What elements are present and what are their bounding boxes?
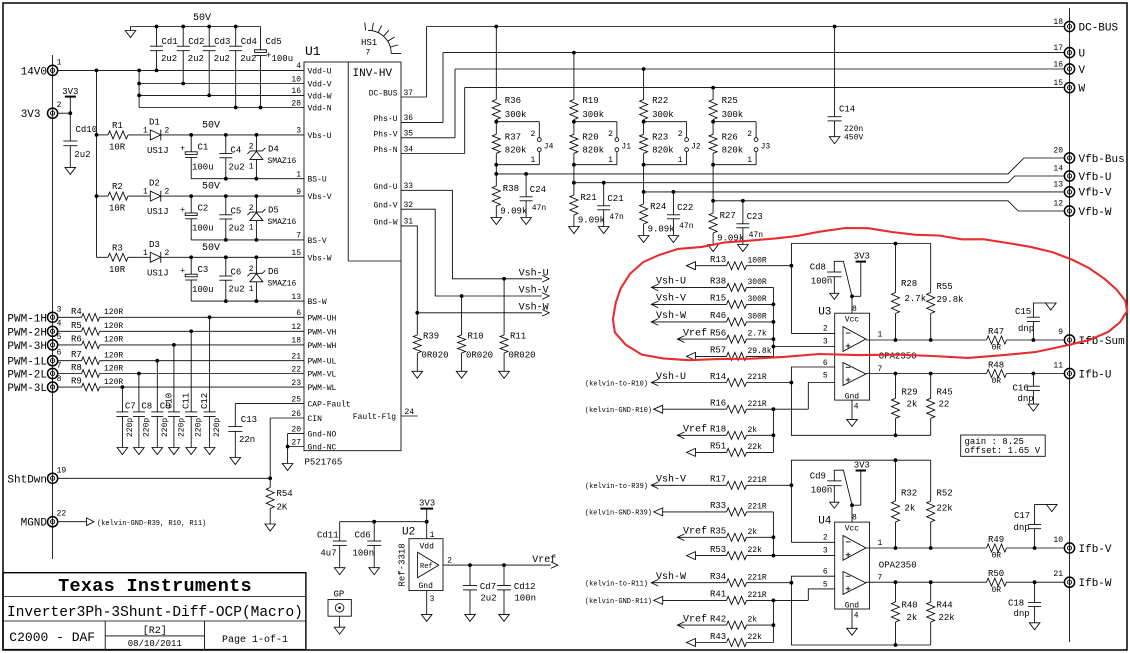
svg-text:22k: 22k: [748, 443, 763, 452]
svg-text:2: 2: [57, 101, 62, 110]
svg-text:US1J: US1J: [147, 268, 169, 278]
resistor R34 221R input: [585, 571, 791, 589]
wire Vfb-Bus net: [496, 158, 1064, 174]
resistor R2 10R: [97, 182, 151, 214]
svg-text:R22: R22: [652, 96, 668, 106]
svg-text:R28: R28: [901, 279, 917, 289]
resistor R4 120R: [58, 307, 305, 321]
svg-text:18: 18: [291, 337, 301, 346]
svg-text:PWM-3H: PWM-3H: [7, 341, 47, 353]
ground for GP: [334, 627, 345, 634]
svg-text:PWM-3L: PWM-3L: [7, 383, 47, 395]
capacitor Cd4 2u2: [229, 27, 257, 108]
svg-text:PWM-VL: PWM-VL: [308, 371, 337, 380]
svg-text:R38: R38: [503, 184, 519, 194]
power flag 3V3: [62, 87, 78, 113]
wire U4 inverting node lower: [790, 576, 931, 647]
svg-text:3: 3: [430, 595, 435, 604]
svg-text:15: 15: [1053, 79, 1063, 88]
svg-text:Vref: Vref: [532, 554, 556, 566]
svg-text:Vsh-U: Vsh-U: [519, 267, 549, 279]
wire BS row pin 1: [191, 177, 304, 181]
resistor R3 10R: [97, 243, 151, 275]
svg-text:US1J: US1J: [147, 207, 169, 217]
svg-text:2u2: 2u2: [229, 162, 245, 172]
svg-text:20: 20: [1053, 147, 1063, 156]
jumper J2: [644, 122, 701, 165]
wire U3 reference divider vertical: [772, 409, 776, 452]
svg-text:100u: 100u: [272, 54, 294, 64]
port PWM-3L pin 8: [7, 375, 61, 395]
svg-text:SMAZ16: SMAZ16: [268, 279, 297, 288]
svg-text:SMAZ16: SMAZ16: [268, 218, 297, 227]
svg-text:[R2]: [R2]: [143, 625, 167, 637]
svg-text:10: 10: [1053, 536, 1063, 545]
resistor R29 2k: [892, 374, 918, 436]
svg-text:MGND: MGND: [21, 518, 48, 530]
svg-text:US1J: US1J: [147, 146, 169, 156]
wire Ifb-W output net: [866, 580, 1065, 584]
svg-text:Cd1: Cd1: [162, 37, 178, 47]
svg-text:100n: 100n: [353, 548, 375, 558]
resistor R18 2k: [677, 424, 773, 440]
svg-text:120R: 120R: [104, 322, 123, 331]
svg-text:Gnd-V: Gnd-V: [373, 202, 397, 211]
svg-text:Cd10: Cd10: [76, 125, 98, 135]
svg-text:Vref: Vref: [683, 424, 707, 436]
svg-text:0R: 0R: [992, 552, 1002, 561]
wire U3 inverting node lower: [790, 367, 931, 437]
svg-text:47n: 47n: [609, 213, 624, 222]
resistor R46 300R input: [651, 310, 773, 326]
svg-text:221R: 221R: [748, 591, 767, 600]
wire Gnd-U to Vsh-U: [401, 190, 549, 282]
power flag 3V3 for U4: [850, 461, 870, 523]
svg-text:11: 11: [1053, 362, 1063, 371]
svg-text:dnp: dnp: [1014, 609, 1030, 619]
svg-text:Cd3: Cd3: [214, 37, 230, 47]
svg-text:300k: 300k: [722, 110, 744, 120]
resistor R53 22k: [687, 545, 835, 560]
svg-text:2k: 2k: [907, 399, 918, 409]
port Vfb-U pin 14: [1053, 165, 1111, 184]
capacitor Cd3 2u2: [203, 27, 231, 96]
svg-text:220p: 220p: [161, 418, 170, 437]
svg-text:4: 4: [296, 62, 301, 71]
port DC-BUS pin 18: [1053, 18, 1118, 34]
svg-text:Gnd-NC: Gnd-NC: [308, 444, 337, 453]
capacitor C5 2u2: [219, 196, 244, 240]
svg-text:0R020: 0R020: [422, 351, 449, 361]
capacitor C7 220p: [116, 387, 135, 454]
svg-text:22k: 22k: [748, 633, 763, 642]
svg-text:21: 21: [1053, 570, 1063, 579]
resistor R50 0R: [987, 569, 1007, 595]
svg-text:BS-W: BS-W: [308, 298, 327, 307]
svg-text:Gnd-U: Gnd-U: [373, 183, 397, 192]
svg-text:100n: 100n: [811, 277, 833, 287]
port ShtDwn pin 19: [7, 466, 66, 486]
svg-text:Vfb-Bus: Vfb-Bus: [1079, 154, 1125, 166]
svg-text:R42: R42: [710, 614, 726, 624]
wire U4 pin5 node: [808, 589, 834, 601]
svg-text:300R: 300R: [748, 313, 767, 322]
svg-text:Cd6: Cd6: [355, 530, 371, 540]
svg-text:100n: 100n: [514, 594, 536, 604]
svg-text:820k: 820k: [652, 146, 674, 156]
svg-text:13: 13: [1053, 180, 1063, 189]
svg-text:R36: R36: [505, 96, 521, 106]
svg-text:300k: 300k: [582, 110, 604, 120]
svg-text:J3: J3: [761, 143, 771, 152]
svg-text:Cd7: Cd7: [480, 582, 496, 592]
svg-text:10: 10: [291, 75, 301, 84]
node MGND kelvin arrow: [58, 518, 207, 528]
svg-text:R50: R50: [988, 569, 1004, 579]
capacitor C8 220p: [133, 374, 152, 455]
svg-text:R57: R57: [710, 346, 726, 356]
capacitor Cd12 100n: [497, 565, 536, 621]
svg-text:ShtDwn: ShtDwn: [7, 474, 47, 486]
svg-text:Cd9: Cd9: [810, 471, 826, 481]
svg-text:R11: R11: [510, 332, 526, 342]
svg-text:2u2: 2u2: [229, 224, 245, 234]
svg-text:PWM-1H: PWM-1H: [7, 313, 47, 325]
svg-text:J4: J4: [544, 143, 554, 152]
svg-text:33: 33: [404, 182, 414, 191]
svg-text:120R: 120R: [104, 364, 123, 373]
diode D2 US1J: [143, 179, 170, 218]
svg-text:U4: U4: [818, 516, 832, 528]
svg-text:R3: R3: [112, 243, 123, 253]
resistor R51 22k: [687, 442, 774, 457]
capacitor C22 47n: [667, 190, 694, 243]
svg-text:R25: R25: [722, 96, 738, 106]
wire U phase rail: [401, 51, 1065, 123]
svg-text:3: 3: [823, 338, 828, 347]
svg-text:32: 32: [404, 201, 414, 210]
svg-text:22k: 22k: [748, 546, 763, 555]
resistor R28 2.7k: [892, 244, 927, 341]
svg-text:D3: D3: [149, 240, 160, 250]
svg-text:10R: 10R: [109, 204, 126, 214]
capacitor C11 220p: [182, 331, 204, 454]
capacitor Cd11 4u7: [317, 522, 347, 575]
svg-text:PWM-2L: PWM-2L: [7, 370, 47, 382]
wire Vbs row pin 15: [161, 243, 304, 259]
svg-text:Vbs-U: Vbs-U: [308, 132, 332, 141]
svg-text:Vdd: Vdd: [420, 542, 435, 551]
svg-text:22: 22: [291, 365, 301, 374]
svg-text:Cd5: Cd5: [266, 37, 282, 47]
svg-text:300R: 300R: [748, 278, 767, 287]
capacitor C14 220n 450V: [828, 27, 864, 144]
svg-text:3: 3: [296, 127, 301, 136]
capacitor C23 47n: [736, 199, 763, 252]
svg-text:C3: C3: [198, 265, 209, 275]
svg-text:PWM-UH: PWM-UH: [308, 314, 337, 323]
jumper J1: [574, 122, 631, 165]
svg-text:29.8k: 29.8k: [748, 347, 772, 356]
svg-text:R21: R21: [580, 193, 596, 203]
resistor R45 22: [927, 374, 953, 436]
svg-text:28: 28: [291, 99, 301, 108]
resistor R55 29.8k: [927, 244, 964, 341]
port MGND pin 22: [21, 510, 67, 530]
svg-text:C12: C12: [200, 393, 210, 409]
resistor R36 300k: [492, 27, 526, 122]
wire U4 non-inverting node: [772, 512, 776, 558]
svg-text:450V: 450V: [844, 134, 863, 143]
svg-text:OPA2350: OPA2350: [879, 352, 917, 362]
svg-text:Vdd-N: Vdd-N: [308, 105, 332, 114]
svg-text:Vsh-W: Vsh-W: [519, 301, 549, 313]
svg-text:R43: R43: [710, 632, 726, 642]
svg-text:(kelvin-to-R39): (kelvin-to-R39): [585, 483, 648, 491]
resistor R47 0R: [987, 327, 1007, 353]
svg-text:PWM-VH: PWM-VH: [308, 328, 337, 337]
resistor R5 120R: [58, 321, 305, 335]
svg-text:C23: C23: [747, 212, 763, 222]
wire Vfb-U net: [574, 176, 1065, 183]
svg-text:PWM-WH: PWM-WH: [308, 342, 337, 351]
capacitor Cd5 100u: [255, 27, 294, 108]
svg-text:Vsh-W: Vsh-W: [656, 310, 686, 322]
svg-text:0R: 0R: [992, 344, 1002, 353]
svg-text:8: 8: [57, 375, 62, 384]
svg-text:Phs-V: Phs-V: [373, 130, 397, 139]
wire CAP-Fault net: [235, 404, 304, 427]
svg-text:J2: J2: [691, 143, 701, 152]
svg-text:100R: 100R: [748, 256, 767, 265]
svg-text:3V3: 3V3: [62, 87, 78, 97]
svg-text:R17: R17: [710, 475, 726, 485]
svg-text:INV-HV: INV-HV: [353, 68, 393, 80]
svg-text:U3: U3: [818, 307, 831, 319]
svg-text:120R: 120R: [104, 378, 123, 387]
svg-text:6: 6: [57, 349, 62, 358]
svg-text:Vsh-V: Vsh-V: [519, 285, 549, 297]
svg-text:C10: C10: [164, 393, 174, 409]
svg-text:1: 1: [878, 539, 883, 548]
svg-text:08/10/2011: 08/10/2011: [128, 639, 182, 649]
port Ifb-Sum pin 9: [1058, 328, 1125, 348]
svg-text:+: +: [180, 206, 185, 215]
svg-text:C16: C16: [1013, 384, 1029, 394]
svg-text:2k: 2k: [748, 426, 758, 435]
svg-text:R46: R46: [710, 311, 726, 321]
svg-text:HS1: HS1: [361, 38, 377, 48]
resistor R17 221R input: [585, 474, 791, 492]
svg-text:2: 2: [823, 533, 828, 542]
wire Fault-Flg stub pin 24: [401, 415, 418, 417]
resistor R37 820k: [492, 120, 526, 165]
wire U3 non-inverting summing node: [772, 287, 835, 356]
port Vfb-W pin 12: [1053, 200, 1112, 219]
svg-text:1: 1: [249, 163, 254, 172]
svg-text:2u2: 2u2: [229, 285, 245, 295]
power flag 3V3 for U2: [419, 499, 435, 522]
svg-text:Inverter3Ph-3Shunt-Diff-OCP(Ma: Inverter3Ph-3Shunt-Diff-OCP(Macro): [7, 605, 303, 621]
svg-text:19: 19: [57, 466, 67, 475]
resistor R1 10R: [97, 121, 151, 153]
svg-text:25: 25: [291, 395, 301, 404]
svg-text:Phs-N: Phs-N: [373, 146, 397, 155]
svg-text:221R: 221R: [748, 476, 767, 485]
wire U4 feedback top rail: [790, 458, 931, 542]
svg-text:37: 37: [404, 89, 414, 98]
capacitor Cd6 100n: [353, 522, 382, 575]
svg-text:R23: R23: [652, 133, 668, 143]
svg-text:1: 1: [530, 156, 535, 165]
svg-text:C17: C17: [1014, 511, 1030, 521]
svg-text:Vcc: Vcc: [845, 524, 860, 533]
svg-text:1: 1: [678, 156, 683, 165]
ground for Gnd-NO Gnd-NC: [282, 464, 293, 471]
svg-text:820k: 820k: [722, 146, 744, 156]
svg-text:0R020: 0R020: [466, 351, 493, 361]
svg-text:+: +: [180, 145, 185, 154]
svg-text:2K: 2K: [277, 503, 288, 513]
ground for 50V rail: [125, 27, 136, 38]
capacitor C24 47n: [520, 172, 547, 225]
svg-text:2k: 2k: [748, 528, 758, 537]
title block: [3, 573, 306, 650]
svg-text:1: 1: [249, 285, 254, 294]
svg-text:1: 1: [143, 188, 148, 197]
svg-text:C14: C14: [839, 105, 855, 115]
svg-text:4: 4: [854, 403, 859, 412]
svg-text:2: 2: [823, 325, 828, 334]
svg-text:100n: 100n: [811, 485, 833, 495]
svg-text:C15: C15: [1015, 307, 1031, 317]
svg-text:100u: 100u: [192, 163, 214, 173]
capacitor C9 220p: [151, 361, 170, 455]
svg-text:220p: 220p: [126, 418, 135, 437]
wire 50V top rail: [131, 13, 261, 28]
capacitor C6 2u2: [219, 257, 244, 301]
resistor R52 22k: [927, 460, 953, 548]
capacitor C3 100u: [180, 257, 213, 301]
svg-text:R41: R41: [710, 590, 726, 600]
svg-text:DC-BUS: DC-BUS: [1079, 22, 1119, 34]
resistor R44 22k: [927, 582, 955, 645]
svg-text:Vsh-V: Vsh-V: [656, 474, 686, 486]
capacitor Cd2 2u2: [177, 27, 205, 84]
capacitor C4 2u2: [219, 135, 244, 179]
resistor R38 9.09k: [491, 163, 527, 225]
svg-text:(kelvin-to-R10): (kelvin-to-R10): [585, 380, 648, 388]
wire Ifb-U output net: [866, 372, 1065, 376]
svg-text:1: 1: [296, 171, 301, 180]
wire W phase rail: [401, 86, 1065, 154]
svg-text:Cd8: Cd8: [810, 263, 826, 273]
wire Vdd-W row: [139, 94, 304, 98]
svg-text:R52: R52: [937, 489, 953, 499]
op-amp U4 OPA2350: [818, 514, 916, 621]
svg-text:14V0: 14V0: [21, 66, 47, 78]
svg-text:221R: 221R: [748, 573, 767, 582]
resistor R27 9.09k: [708, 163, 744, 252]
svg-text:2: 2: [678, 130, 683, 139]
capacitor C10 220p: [164, 345, 186, 455]
svg-text:(kelvin-GND-R39, R10, R11): (kelvin-GND-R39, R10, R11): [97, 520, 206, 528]
svg-text:35: 35: [404, 130, 414, 139]
svg-text:CAP-Fault: CAP-Fault: [308, 401, 351, 410]
wire 3V3 rail to U2: [340, 520, 429, 539]
capacitor C13 22n: [228, 415, 257, 465]
wire right port bus vertical: [1069, 8, 1071, 642]
svg-text:16: 16: [291, 87, 301, 96]
svg-text:C5: C5: [231, 207, 242, 217]
svg-text:Ifb-W: Ifb-W: [1079, 578, 1112, 590]
svg-text:221R: 221R: [748, 503, 767, 512]
svg-text:(kelvin-GND-R10): (kelvin-GND-R10): [585, 407, 652, 415]
op-amp U3 OPA2350: [818, 305, 916, 412]
wire U3 feedback top rail: [790, 242, 931, 334]
resistor R14 221R input: [585, 371, 791, 389]
resistor R56 2.7k: [677, 327, 773, 343]
zener diode D4 SMAZ16: [247, 135, 296, 179]
svg-text:2u2: 2u2: [74, 150, 90, 160]
svg-text:C2: C2: [198, 204, 209, 214]
svg-text:R20: R20: [582, 133, 598, 143]
capacitor C15 dnp: [1015, 303, 1056, 340]
svg-text:R54: R54: [277, 489, 293, 499]
zener diode D5 SMAZ16: [247, 196, 296, 240]
svg-text:8: 8: [852, 305, 857, 314]
svg-text:9: 9: [296, 188, 301, 197]
svg-text:1: 1: [57, 58, 62, 67]
svg-text:12: 12: [291, 323, 301, 332]
ic U2 Ref-3318: [398, 527, 453, 604]
svg-text:R48: R48: [988, 361, 1004, 371]
svg-text:R35: R35: [710, 527, 726, 537]
diode D3 US1J: [143, 240, 170, 279]
port PWM-1L pin 6: [7, 349, 61, 369]
resistor R16 221R: [585, 399, 809, 416]
svg-text:R37: R37: [505, 133, 521, 143]
svg-text:221R: 221R: [748, 373, 767, 382]
svg-text:9.09k: 9.09k: [648, 225, 675, 235]
capacitor C17 dnp: [1014, 505, 1058, 548]
svg-text:Vbs-W: Vbs-W: [308, 254, 332, 263]
svg-text:(kelvin-GND-R11): (kelvin-GND-R11): [585, 598, 652, 606]
wire Vfb-W net: [713, 201, 1065, 211]
jumper J4: [496, 122, 553, 165]
resistor R54 2K: [266, 478, 293, 524]
svg-text:6: 6: [296, 309, 301, 318]
svg-text:220p: 220p: [142, 418, 151, 437]
wire 3V3 port to Cd10: [58, 111, 73, 141]
svg-text:4u7: 4u7: [320, 548, 336, 558]
svg-text:4: 4: [57, 319, 62, 328]
svg-text:D1: D1: [149, 118, 160, 128]
capacitor Cd1 2u2: [150, 27, 178, 71]
svg-text:2k: 2k: [748, 616, 758, 625]
svg-text:22: 22: [57, 510, 67, 519]
svg-text:R6: R6: [71, 334, 82, 344]
svg-text:120R: 120R: [104, 308, 123, 317]
svg-text:R47: R47: [988, 327, 1004, 337]
svg-text:120R: 120R: [104, 336, 123, 345]
svg-text:P521765: P521765: [305, 458, 343, 468]
ground for U3 pin 4: [847, 400, 858, 426]
svg-text:R15: R15: [710, 294, 726, 304]
capacitor C2 100u: [180, 196, 213, 240]
svg-text:PWM-1L: PWM-1L: [7, 357, 47, 369]
svg-text:C2000 - DAF: C2000 - DAF: [9, 630, 95, 645]
